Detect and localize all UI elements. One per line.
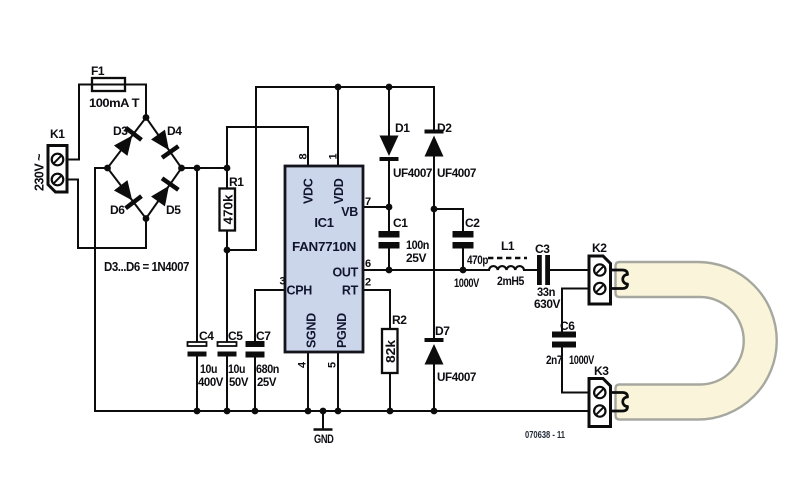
svg-text:C1: C1 — [393, 216, 408, 230]
svg-text:7: 7 — [365, 196, 371, 208]
node rail GND — [320, 408, 327, 415]
wire top VDD rail — [256, 86, 434, 88]
svg-text:C3: C3 — [535, 242, 550, 256]
node rail C4 — [194, 408, 201, 415]
svg-text:RT: RT — [342, 284, 359, 298]
svg-text:50V: 50V — [229, 375, 248, 389]
wire pin 6 OUT to L1 — [363, 269, 489, 271]
svg-text:D4: D4 — [167, 124, 182, 138]
diode D4 — [150, 129, 180, 160]
wire D7 anode to rail — [433, 364, 435, 411]
svg-text:K1: K1 — [50, 127, 65, 141]
svg-text:2mH5: 2mH5 — [497, 274, 525, 288]
svg-text:2n7: 2n7 — [546, 353, 563, 367]
wire node to C4 top — [196, 168, 198, 342]
wire R1 bottom to VDD rail riser — [227, 87, 256, 250]
node VB C1 — [386, 204, 393, 211]
node bridge top — [143, 114, 150, 121]
capacitor C5 electrolytic — [218, 329, 249, 389]
svg-text:5: 5 — [327, 362, 339, 368]
wire K1 top to fuse — [67, 85, 92, 160]
svg-text:D5: D5 — [166, 203, 181, 217]
svg-text:8: 8 — [298, 153, 310, 159]
svg-text:K3: K3 — [594, 364, 609, 378]
svg-text:R2: R2 — [392, 313, 407, 327]
svg-text:PGND: PGND — [335, 313, 349, 348]
wire C6 bottom to K3 upper terminal — [562, 348, 589, 393]
wire bridge arm top-right — [146, 118, 182, 169]
wire K1 bottom to bridge bottom — [67, 180, 146, 249]
svg-text:C5: C5 — [228, 329, 243, 343]
connector K3 — [589, 364, 611, 427]
wire through fuse to bridge top — [92, 85, 146, 118]
svg-text:C4: C4 — [199, 329, 214, 343]
wire pin 2 RT to R2 top — [363, 290, 390, 329]
capacitor C1 — [379, 216, 430, 265]
junction node dots — [104, 84, 466, 415]
svg-text:680n: 680n — [256, 362, 279, 376]
lamp tube — [616, 262, 777, 420]
node C4 tap — [194, 165, 201, 172]
wire L1 to C3 — [524, 269, 537, 271]
wire R2 bottom to rail — [389, 373, 391, 411]
diode D1 — [380, 121, 433, 180]
svg-text:IC1: IC1 — [314, 215, 333, 230]
svg-text:25V: 25V — [406, 251, 426, 265]
fuse F1 — [89, 64, 140, 110]
wire bridge right to R1 node — [182, 167, 228, 169]
diode D2 — [425, 121, 477, 180]
svg-text:R1: R1 — [229, 175, 244, 189]
wire C1 top lead — [388, 207, 390, 231]
svg-text:UF4007: UF4007 — [437, 370, 477, 384]
node bridge left — [104, 165, 111, 172]
wire pin 7 VB — [363, 206, 389, 208]
lamp filament bottom — [611, 393, 628, 412]
svg-text:UF4007: UF4007 — [393, 166, 433, 180]
node rail SGND — [305, 408, 312, 415]
wire bridge left to ground rail — [95, 168, 108, 411]
node rail D7 — [431, 408, 438, 415]
lamp filament top — [611, 270, 628, 289]
wire bridge arm bottom-right — [146, 168, 182, 219]
capacitor C7 — [246, 329, 280, 389]
svg-text:VDD: VDD — [332, 178, 346, 204]
svg-text:630V: 630V — [534, 297, 560, 311]
svg-text:230V ~: 230V ~ — [33, 154, 47, 191]
connector K1 — [48, 127, 67, 192]
capacitor C6 — [546, 319, 594, 367]
node D1 rail — [386, 84, 393, 91]
IC U1 body — [285, 166, 363, 352]
svg-text:K2: K2 — [592, 241, 607, 255]
node rail PGND — [335, 408, 342, 415]
svg-text:C6: C6 — [560, 319, 575, 333]
resistor R1 — [220, 175, 245, 231]
diode D5 — [150, 176, 180, 207]
svg-text:1000V: 1000V — [454, 276, 479, 290]
svg-text:C2: C2 — [465, 216, 480, 230]
svg-text:1: 1 — [328, 153, 340, 159]
svg-text:D3...D6 = 1N4007: D3...D6 = 1N4007 — [104, 260, 189, 274]
inductor L1 — [488, 258, 527, 270]
svg-text:10u: 10u — [200, 362, 217, 376]
node bridge bottom — [143, 215, 150, 222]
svg-text:FAN7710N: FAN7710N — [292, 239, 356, 254]
svg-text:C7: C7 — [256, 329, 271, 343]
wire pin 3 CPH to C7 — [255, 290, 285, 341]
svg-text:GND: GND — [314, 432, 334, 446]
svg-text:1000V: 1000V — [569, 353, 594, 367]
svg-text:L1: L1 — [501, 239, 515, 253]
diode D7 — [425, 324, 477, 384]
svg-text:OUT: OUT — [333, 266, 359, 280]
svg-text:070638 - 11: 070638 - 11 — [525, 430, 565, 441]
svg-text:400V: 400V — [198, 375, 223, 389]
capacitor C2 — [453, 216, 489, 290]
svg-text:2: 2 — [365, 277, 371, 289]
node rail C5 — [224, 408, 231, 415]
wire D1 bottom to VB node — [388, 160, 390, 207]
wire bridge arm bottom-left — [108, 168, 147, 219]
svg-text:470p: 470p — [467, 253, 488, 267]
svg-text:VB: VB — [341, 205, 358, 219]
svg-text:D3: D3 — [113, 124, 128, 138]
svg-text:D6: D6 — [110, 203, 125, 217]
svg-text:4: 4 — [297, 361, 309, 368]
svg-text:25V: 25V — [257, 375, 276, 389]
wire pin 1 VDD — [337, 87, 339, 166]
svg-text:UF4007: UF4007 — [437, 166, 477, 180]
svg-text:VDC: VDC — [302, 178, 316, 204]
diode D3 — [113, 126, 143, 157]
node rail R2 — [387, 408, 394, 415]
svg-text:82k: 82k — [384, 340, 398, 363]
wire bottom ground rail — [95, 410, 589, 412]
svg-text:D2: D2 — [437, 121, 452, 135]
svg-text:SGND: SGND — [305, 313, 319, 348]
svg-text:6: 6 — [365, 258, 371, 270]
ground symbol — [314, 411, 335, 446]
svg-text:3: 3 — [280, 276, 286, 288]
wire R1 top — [226, 168, 228, 189]
svg-text:D7: D7 — [435, 324, 450, 338]
wire D1 top — [388, 87, 390, 135]
svg-text:100mA T: 100mA T — [89, 96, 140, 110]
node R1 bottom — [224, 247, 231, 254]
wire C5 top — [226, 250, 228, 342]
wire D2 node to C2 top — [434, 209, 463, 231]
svg-text:10u: 10u — [228, 362, 245, 376]
node rail C7 — [252, 408, 259, 415]
wire C2 bottom — [462, 249, 464, 271]
diode D6 — [113, 179, 143, 210]
wire C3 to K2 — [550, 269, 589, 271]
capacitor C3 — [534, 242, 560, 311]
wire C1 bottom lead — [388, 249, 390, 271]
capacitor C4 electrolytic — [188, 329, 224, 389]
wire D2 anode to D7 cathode — [433, 156, 435, 339]
wire C7 bottom to rail — [254, 358, 256, 412]
node C2 out — [460, 267, 467, 274]
wire pin 5 PGND — [337, 352, 339, 411]
node bridge right — [178, 165, 185, 172]
wire D2 top — [433, 87, 435, 131]
node D2 C2 — [431, 206, 438, 213]
wire K2 lower terminal to C6 — [562, 289, 589, 332]
wire pin 4 SGND — [307, 352, 309, 411]
resistor R2 — [382, 313, 407, 373]
wire C5 bottom to rail — [226, 357, 228, 412]
svg-text:F1: F1 — [91, 64, 105, 78]
svg-text:100n: 100n — [406, 238, 429, 252]
wire bridge arm top-left — [108, 118, 147, 169]
svg-text:470k: 470k — [221, 194, 235, 224]
node VDD pin1 — [335, 84, 342, 91]
wire C4 bottom to rail — [196, 357, 198, 412]
wire pin 8 VDC branch — [227, 127, 308, 168]
svg-text:CPH: CPH — [287, 284, 313, 298]
svg-text:D1: D1 — [395, 121, 410, 135]
node C1 out — [386, 267, 393, 274]
connector K2 — [589, 241, 611, 304]
node R1 top — [224, 165, 231, 172]
